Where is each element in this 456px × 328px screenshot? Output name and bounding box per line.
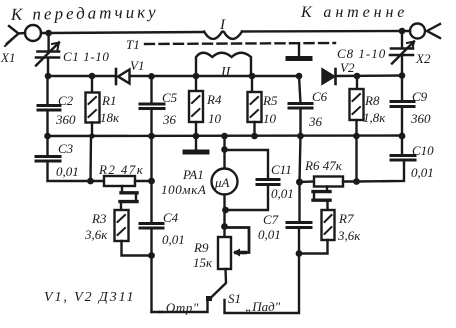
svg-text:К антенне: К антенне bbox=[300, 4, 408, 21]
node top-left junction bbox=[45, 30, 52, 37]
node rail2 C1 bbox=[45, 73, 52, 80]
resistor R1 bbox=[91, 76, 93, 93]
capacitor C11 bbox=[257, 178, 279, 181]
node rail2 winding II left bbox=[193, 73, 200, 80]
node meter top branch bbox=[221, 146, 228, 153]
capacitor C4 bbox=[150, 136, 152, 223]
svg-text:R5: R5 bbox=[262, 93, 278, 108]
capacitor C6 bbox=[299, 76, 301, 103]
wire top left bbox=[19, 32, 205, 34]
svg-text:V1, V2 Д311: V1, V2 Д311 bbox=[44, 290, 135, 305]
svg-text:R4: R4 bbox=[206, 92, 222, 107]
resistor R7 bbox=[322, 210, 335, 240]
svg-text:C5: C5 bbox=[162, 90, 178, 105]
resistor R2 (trimmer) bbox=[91, 180, 105, 182]
R6 tap zigzag bbox=[326, 187, 328, 191]
wire R8 column down bbox=[355, 136, 357, 182]
svg-text:C3: C3 bbox=[58, 141, 74, 156]
R9 wiper loop bbox=[225, 228, 250, 253]
svg-text:R7: R7 bbox=[338, 211, 354, 226]
transformer core dashed line bbox=[145, 43, 335, 44]
node C3/R2 junction bbox=[87, 178, 94, 185]
svg-text:R9: R9 bbox=[193, 240, 209, 255]
node R3 bottom junction bbox=[148, 252, 155, 259]
svg-text:10: 10 bbox=[208, 111, 222, 126]
resistor R3 bbox=[115, 210, 129, 241]
svg-text:II: II bbox=[220, 65, 232, 80]
node rail2 winding II right bbox=[249, 73, 256, 80]
S1 left loop wire bbox=[152, 300, 208, 312]
svg-text:R2 47к: R2 47к bbox=[98, 162, 144, 177]
svg-text:С1 1-10: С1 1-10 bbox=[63, 49, 109, 64]
capacitor C7 bbox=[298, 182, 300, 222]
node rail3 R5 bbox=[251, 133, 258, 140]
node C11 right junction bbox=[296, 179, 303, 186]
svg-text:0,01: 0,01 bbox=[56, 164, 79, 179]
switch S1 left contact bbox=[206, 296, 212, 301]
svg-text:T1: T1 bbox=[126, 37, 140, 52]
meter PA1 bbox=[223, 136, 225, 169]
svg-text:36: 36 bbox=[162, 112, 177, 127]
transformer T1 winding I bbox=[204, 32, 242, 39]
wire meter bottom bbox=[223, 195, 225, 238]
svg-text:36: 36 bbox=[308, 114, 323, 129]
svg-text:R6 47к: R6 47к bbox=[304, 158, 343, 173]
svg-text:μА: μА bbox=[214, 175, 230, 190]
resistor R6 (trimmer) bbox=[300, 180, 315, 183]
svg-text:1,8к: 1,8к bbox=[363, 110, 386, 125]
wire R1 column down bbox=[89, 136, 92, 182]
svg-text:C4: C4 bbox=[163, 210, 179, 225]
node rail3 R4 bbox=[193, 133, 200, 140]
node rail2 C8 bbox=[399, 72, 406, 79]
transformer T1 winding II bbox=[196, 53, 251, 76]
svg-text:R3: R3 bbox=[91, 211, 107, 226]
capacitor C11 branch wire bbox=[225, 150, 269, 179]
diode V1 bbox=[115, 69, 118, 84]
node rail2 R8 bbox=[354, 73, 361, 80]
svg-text:0,01: 0,01 bbox=[411, 165, 434, 180]
capacitor C5 bbox=[150, 76, 152, 102]
svg-text:18к: 18к bbox=[100, 110, 120, 125]
node C7 bottom junction bbox=[296, 250, 303, 257]
svg-text:С8 1-10: С8 1-10 bbox=[337, 46, 386, 61]
S1 right loop wire bbox=[225, 254, 300, 314]
resistor R8 bbox=[356, 76, 358, 89]
capacitor C9 bbox=[401, 76, 403, 102]
resistor R5 bbox=[251, 76, 253, 92]
connector X1 circle bbox=[25, 25, 41, 41]
capacitor C2 bbox=[46, 76, 48, 104]
svg-text:R8: R8 bbox=[364, 93, 380, 108]
svg-text:К передатчику: К передатчику bbox=[10, 2, 159, 24]
connector X1 chevron bbox=[7, 26, 19, 44]
node rail3 C5 bbox=[148, 133, 155, 140]
screen ground bbox=[298, 44, 300, 57]
node rail3 C9 bbox=[399, 133, 406, 140]
capacitor C10 bbox=[401, 136, 403, 155]
wire top right bbox=[242, 30, 410, 33]
connector X2 circle bbox=[410, 24, 425, 39]
wire rail 2 bbox=[48, 74, 402, 77]
node wiper loop bbox=[221, 223, 228, 230]
svg-text:3,6к: 3,6к bbox=[84, 227, 108, 242]
svg-text:C9: C9 bbox=[412, 89, 428, 104]
node rail2 C6 bbox=[296, 73, 303, 80]
svg-text:3,6к: 3,6к bbox=[337, 228, 361, 243]
R2 tap zigzag bbox=[121, 186, 123, 191]
svg-text:15к: 15к bbox=[193, 255, 213, 270]
svg-text:0,01: 0,01 bbox=[258, 227, 281, 242]
capacitor C1 (variable) bbox=[47, 33, 49, 50]
svg-text:I: I bbox=[219, 17, 226, 33]
svg-text:0,01: 0,01 bbox=[271, 186, 294, 201]
svg-text:C11: C11 bbox=[271, 162, 292, 177]
node rail3 R1 bbox=[89, 133, 94, 138]
node rail3 C2 bbox=[44, 133, 51, 140]
capacitor C3 bbox=[46, 136, 48, 155]
switch S1 arm bbox=[211, 269, 226, 298]
node R6 right junction bbox=[353, 178, 360, 185]
capacitor C8 (variable) bbox=[401, 31, 403, 47]
ground below R4 bbox=[195, 136, 197, 150]
wire rail 3 bbox=[48, 134, 403, 137]
wire C6 column down bbox=[300, 136, 301, 183]
node rail3 meter branch bbox=[221, 133, 228, 140]
svg-text:R1: R1 bbox=[101, 93, 116, 108]
svg-text:C6: C6 bbox=[312, 89, 328, 104]
node meter bottom / C11 bbox=[222, 207, 229, 214]
svg-text:100мкА: 100мкА bbox=[161, 182, 206, 197]
node rail3 R8 bbox=[353, 133, 360, 140]
svg-text:C10: C10 bbox=[412, 143, 434, 158]
node rail2 R1 bbox=[89, 73, 96, 80]
svg-text:X2: X2 bbox=[415, 51, 431, 66]
svg-text:V1: V1 bbox=[130, 58, 144, 73]
connector X2 chevron bbox=[427, 24, 440, 38]
svg-text:C2: C2 bbox=[58, 93, 74, 108]
resistor R4 bbox=[195, 76, 197, 91]
svg-text:360: 360 bbox=[55, 112, 76, 127]
svg-text:360: 360 bbox=[410, 111, 431, 126]
svg-text:PA1: PA1 bbox=[182, 167, 204, 182]
svg-text:X1: X1 bbox=[0, 50, 15, 65]
svg-text:S1: S1 bbox=[228, 291, 241, 306]
svg-text:V2: V2 bbox=[340, 60, 355, 75]
svg-text:10: 10 bbox=[263, 111, 277, 126]
wire to C10 bbox=[357, 160, 405, 182]
node C4 top junction bbox=[148, 178, 155, 185]
svg-text:C7: C7 bbox=[263, 212, 279, 227]
node rail2 C5 bbox=[148, 73, 155, 80]
svg-text:„Отр": „Отр" bbox=[158, 300, 199, 315]
diode V2 bbox=[323, 75, 335, 77]
svg-text:0,01: 0,01 bbox=[162, 232, 185, 247]
node rail3 C6 bbox=[297, 133, 304, 140]
svg-text:„Пад": „Пад" bbox=[245, 299, 281, 314]
resistor R9 bbox=[218, 237, 231, 269]
node top-right junction bbox=[399, 28, 406, 35]
